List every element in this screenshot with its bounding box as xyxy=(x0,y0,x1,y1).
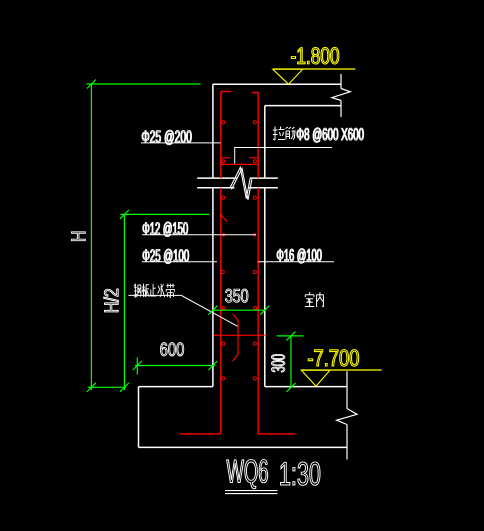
slab bottom line xyxy=(265,105,341,107)
diagonal tie bar xyxy=(221,215,227,221)
dimension 600 left extension xyxy=(136,358,138,375)
hanzi la (pull) xyxy=(273,127,285,141)
title double underline xyxy=(225,491,278,494)
elevation text -7.700 xyxy=(308,350,358,367)
label leader phi25@100 xyxy=(142,261,217,263)
rebar left vertical with top hook and bottom foot xyxy=(180,92,232,434)
label leader phi25@200 xyxy=(141,142,221,144)
label text phi25@100 xyxy=(143,249,189,264)
dimension bottom shared extension line xyxy=(88,386,126,388)
tie bar across at construction joint xyxy=(221,163,258,165)
dimension 350 left tick xyxy=(208,306,217,315)
horizontal bar section circles pair y=308 xyxy=(222,306,257,309)
wall left face (lower segment) xyxy=(212,188,214,387)
label text phi12@150 xyxy=(143,222,188,237)
tie hook circles xyxy=(222,160,257,163)
dimension H/2 vertical line xyxy=(123,214,125,390)
horizontal bar section circles pair y=344 xyxy=(222,342,257,345)
wall mid-height break band top line xyxy=(197,177,278,179)
dimension H vertical line xyxy=(90,84,92,390)
dimension 350 line xyxy=(212,309,265,311)
hanzi shi (room) xyxy=(305,292,314,307)
footing top line left xyxy=(139,386,213,388)
dimension H/2 top extension line xyxy=(120,213,209,215)
construction joint red line xyxy=(214,334,265,336)
dimension H top tick xyxy=(87,80,96,89)
steel waterstop plate (red) xyxy=(233,314,239,362)
wall mid-height break band bottom line xyxy=(197,187,278,189)
footing bottom line xyxy=(139,446,348,448)
slab right break line with zigzag xyxy=(332,74,350,117)
elevation text -1.800 xyxy=(291,47,338,64)
dimension H top extension line xyxy=(87,83,201,85)
horizontal bar section circles pair y=198 xyxy=(222,196,257,199)
footing left edge xyxy=(138,387,140,448)
label leader phi12@150 xyxy=(142,234,256,236)
horizontal bar section circles pair y=122 xyxy=(222,121,257,124)
hanzi gang (steel) xyxy=(134,284,141,297)
dimension 300 top tick xyxy=(287,331,296,340)
elevation -1.800 level line xyxy=(274,68,356,70)
diagonal tie dot xyxy=(220,214,223,217)
hanzi ban (plate) xyxy=(142,284,149,297)
rebar right vertical with top hook and bottom foot xyxy=(252,93,296,434)
footing top line right xyxy=(265,386,347,388)
hanzi nei (inside) xyxy=(317,292,324,307)
dimension 350 right tick xyxy=(260,306,269,315)
label leader lajin (tie) xyxy=(235,148,332,164)
label leader phi16@100 xyxy=(259,261,335,263)
elevation -1.800 triangle xyxy=(273,69,303,84)
elevation -7.700 level line xyxy=(301,369,382,371)
dim text 300 (rotated) xyxy=(271,354,284,372)
dimension 600 left tick xyxy=(133,361,142,370)
wall left face (upper segment) xyxy=(212,84,214,178)
dimension 300 bottom tick xyxy=(287,383,296,392)
hanzi shui (water) xyxy=(158,284,165,297)
hanzi dai (belt) xyxy=(166,284,174,298)
leader dot on phi12 leader left xyxy=(222,233,225,236)
title text 1:30 xyxy=(281,462,321,485)
leader dot on phi12 leader right xyxy=(253,233,256,236)
horizontal bar section circles pair y=378 xyxy=(222,377,257,380)
dimension 600 line xyxy=(135,365,215,367)
dim text H/2 (rotated) xyxy=(104,289,119,312)
footing right break line with zigzag xyxy=(337,371,357,459)
dimension 600 right tick xyxy=(208,361,217,370)
elevation -7.700 triangle xyxy=(301,370,330,386)
dim text 600 xyxy=(160,343,183,356)
dim text 350 xyxy=(225,289,248,302)
leader dot on phi16 leader xyxy=(257,260,260,263)
tie hook assembly short bars xyxy=(221,157,258,159)
hanzi jin (rebar) xyxy=(286,127,296,140)
dimension H bottom tick xyxy=(87,383,96,392)
title text WQ6 xyxy=(227,459,268,488)
break squiggle (doubled stroke) xyxy=(230,167,252,199)
dimension H/2 bottom tick xyxy=(120,383,129,392)
wall top / slab top line xyxy=(213,83,341,85)
label text phi25@200 xyxy=(142,130,192,145)
dim text H (rotated) xyxy=(72,232,86,241)
label text phi16@100 xyxy=(277,249,322,264)
label leader waterstop xyxy=(128,295,237,326)
hanzi zhi (stop) xyxy=(150,284,156,296)
dimension 300 top extension xyxy=(277,335,304,337)
label text lajin phi8@600X600 (phi8 part) xyxy=(297,128,364,143)
dimension H/2 top tick xyxy=(120,210,129,219)
dimension 300 vertical line xyxy=(290,336,292,388)
horizontal bar section circles pair y=272 xyxy=(221,270,256,273)
wall right face (upper segment) xyxy=(264,106,266,179)
wall right face (lower segment) xyxy=(264,188,266,387)
